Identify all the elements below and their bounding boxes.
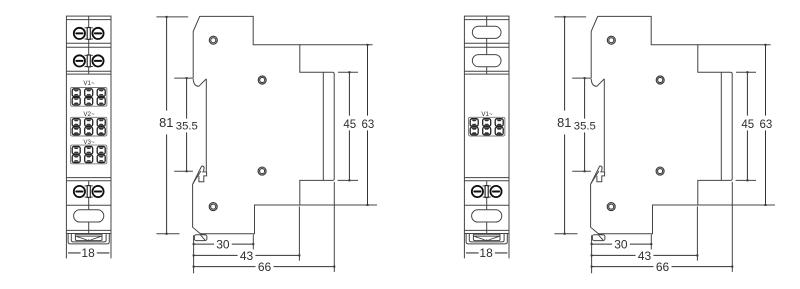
side view S2: clip inner edge — [591, 171, 599, 184]
svg-text:18: 18 — [479, 246, 493, 260]
svg-text:45: 45 — [741, 119, 754, 131]
front view F2: section lines — [464, 20, 509, 231]
screw hole S2-3 — [656, 167, 664, 175]
side view S1: face edge line — [322, 72, 324, 180]
dim 45 extension top S1 — [338, 71, 358, 73]
front view module F2: body outline — [464, 16, 509, 233]
dim 81 extension bottom S2 — [554, 233, 577, 235]
side view module S2: outline — [591, 16, 733, 233]
screw hole S2-4 — [607, 203, 615, 211]
dimension 66 S2 — [591, 260, 734, 274]
dim 45 extension top S2 — [736, 71, 756, 73]
svg-text:63: 63 — [362, 119, 375, 131]
dim 81 extension bottom S1 — [156, 233, 179, 235]
svg-text:81: 81 — [159, 115, 173, 130]
dimension 30 S2 — [591, 238, 653, 252]
front view F2: center line — [486, 16, 488, 233]
side view S2: spring clip strip — [590, 166, 602, 185]
side view S1: rail hook — [193, 79, 206, 87]
screw terminal pair F1-bottom — [74, 186, 104, 198]
dim 66 right extension S2 — [731, 182, 733, 272]
dim 63 extension bottom S2 — [698, 204, 775, 206]
svg-text:45: 45 — [343, 119, 356, 131]
dim 45 extension bottom S2 — [736, 179, 756, 181]
dimension 45 S1 — [343, 71, 356, 181]
oval slot F2-low — [472, 210, 502, 222]
dim 30 right extension S2 — [650, 235, 652, 250]
dim 35.5 extension bottom S2 — [572, 170, 591, 172]
svg-text:66: 66 — [656, 260, 670, 274]
bottom dims left extension S2 — [591, 235, 593, 273]
dimension 18 extension lines — [464, 234, 509, 259]
screw terminal pair F2-bottom — [472, 186, 502, 198]
svg-text:66: 66 — [258, 260, 272, 274]
screw terminal pair F1-top2 — [74, 55, 104, 67]
screw hole S1-3 — [258, 167, 266, 175]
front view module F1: body outline — [66, 16, 111, 233]
svg-text:43: 43 — [240, 249, 254, 263]
side view S1: clip pull tab — [199, 172, 207, 182]
side view S2: DIN groove floor — [603, 79, 605, 171]
dim 81 extension top S1 — [156, 16, 188, 18]
dim 45 extension bottom S1 — [338, 179, 358, 181]
dimension 63 S1 — [362, 44, 375, 206]
dimension 18 — [68, 246, 109, 260]
oval slot F2-2 — [472, 55, 501, 67]
bottom dims left extension S1 — [193, 235, 195, 273]
dimension 18 extension lines — [66, 234, 111, 259]
terminal block F1-V1 — [71, 88, 107, 107]
dimension 43 S2 — [591, 249, 699, 263]
dimension 35.5 S1 — [176, 77, 198, 172]
side view S1: spring clip strip — [192, 166, 204, 185]
side view module S1: outline — [193, 16, 335, 233]
dimension 81 S2 — [557, 16, 571, 235]
dim 43 right extension S2 — [696, 206, 698, 260]
terminal block F1-V2 — [71, 117, 107, 136]
DIN clip foot (front) F2 — [466, 234, 507, 244]
screw hole S1-1 — [209, 36, 217, 44]
dimension 35.5 S2 — [574, 77, 596, 172]
oval slot F2-1 — [472, 26, 501, 38]
side view S1: DIN groove floor — [205, 79, 207, 171]
terminal block F2-V1 — [469, 117, 505, 136]
dim 63 extension top S2 — [698, 44, 771, 46]
side view S2: face edge line — [720, 72, 722, 180]
svg-text:35.5: 35.5 — [574, 121, 596, 133]
dimension 81 S1 — [159, 16, 173, 235]
dim 66 right extension S1 — [333, 182, 335, 272]
dimension 63 S2 — [760, 44, 773, 206]
dimension 66 S1 — [193, 260, 336, 274]
dim 35.5 extension top S1 — [174, 77, 193, 79]
screw hole S2-1 — [607, 36, 615, 44]
side view S2: clip foot — [592, 235, 605, 241]
dimension 45 S2 — [741, 71, 754, 181]
dim 35.5 extension bottom S1 — [174, 170, 193, 172]
terminal block F1-V3 — [71, 145, 107, 164]
svg-text:30: 30 — [614, 238, 628, 252]
front view F1: center line — [88, 16, 90, 233]
screw terminal pair F1-top1 — [74, 28, 104, 40]
dim 63 extension bottom S1 — [300, 204, 377, 206]
side view S2: clip pull tab — [597, 172, 605, 182]
dimension 43 S1 — [193, 249, 301, 263]
side view S1: clip inner edge — [193, 171, 201, 184]
svg-text:81: 81 — [557, 115, 571, 130]
front view F1: section lines — [66, 20, 111, 231]
svg-text:35.5: 35.5 — [176, 121, 198, 133]
dim 30 right extension S1 — [252, 235, 254, 250]
svg-text:43: 43 — [638, 249, 652, 263]
dim 35.5 extension top S2 — [572, 77, 591, 79]
dim 43 right extension S1 — [298, 206, 300, 260]
DIN clip foot (front) F1 — [68, 234, 109, 244]
screw hole S1-2 — [258, 76, 266, 84]
dim 63 extension top S1 — [300, 44, 373, 46]
dimension 18 — [466, 246, 507, 260]
svg-text:18: 18 — [81, 246, 95, 260]
screw hole S1-4 — [209, 203, 217, 211]
svg-text:63: 63 — [760, 119, 773, 131]
screw hole S2-2 — [656, 76, 664, 84]
dimension 30 S1 — [193, 238, 255, 252]
svg-text:V1~: V1~ — [83, 80, 95, 87]
side view S1: clip foot — [194, 235, 207, 241]
side view S2: rail hook — [591, 79, 604, 87]
oval slot F1-low — [74, 210, 104, 222]
dim 81 extension top S2 — [554, 16, 586, 18]
svg-text:30: 30 — [216, 238, 230, 252]
